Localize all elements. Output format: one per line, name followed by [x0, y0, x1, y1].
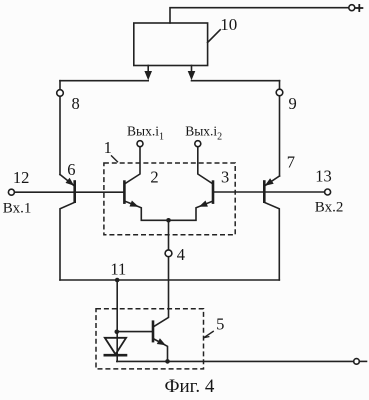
- svg-text:Вых.i1: Вых.i1: [127, 123, 164, 142]
- svg-text:Вх.2: Вх.2: [315, 200, 344, 216]
- svg-text:1: 1: [104, 138, 112, 157]
- svg-text:12: 12: [13, 168, 30, 187]
- svg-text:9: 9: [289, 94, 297, 113]
- svg-text:11: 11: [110, 259, 126, 278]
- svg-text:Вх.1: Вх.1: [3, 200, 32, 216]
- svg-text:10: 10: [220, 15, 237, 34]
- svg-text:Фиг. 4: Фиг. 4: [165, 376, 215, 397]
- svg-text:5: 5: [216, 314, 224, 333]
- svg-text:2: 2: [150, 168, 158, 187]
- svg-text:Вых.i2: Вых.i2: [185, 123, 222, 142]
- svg-text:6: 6: [67, 160, 75, 179]
- svg-text:3: 3: [221, 168, 229, 187]
- svg-text:13: 13: [315, 167, 332, 186]
- svg-text:7: 7: [287, 152, 295, 171]
- svg-text:4: 4: [177, 245, 185, 264]
- svg-text:8: 8: [72, 94, 80, 113]
